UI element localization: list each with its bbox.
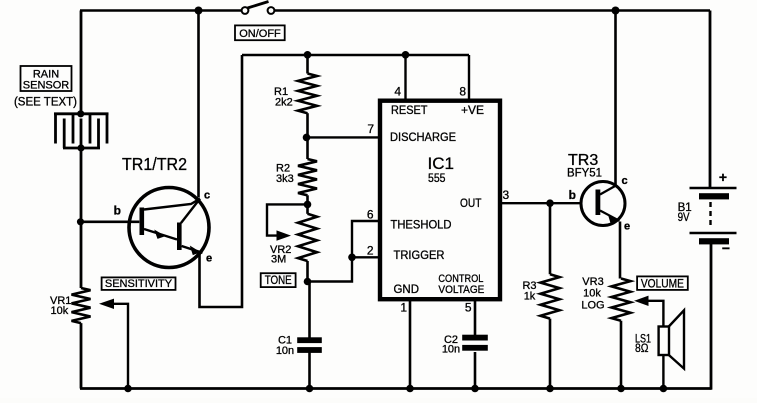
svg-text:3: 3 xyxy=(503,188,510,202)
svg-text:TR1/TR2: TR1/TR2 xyxy=(122,154,187,174)
svg-text:4: 4 xyxy=(394,85,401,99)
svg-text:1k: 1k xyxy=(524,291,536,303)
svg-text:SENSOR: SENSOR xyxy=(23,80,70,92)
svg-text:2k2: 2k2 xyxy=(275,97,293,109)
svg-text:555: 555 xyxy=(428,171,446,185)
svg-text:DISCHARGE: DISCHARGE xyxy=(390,130,456,144)
svg-text:e: e xyxy=(206,253,212,265)
svg-text:8: 8 xyxy=(459,85,466,99)
svg-text:1: 1 xyxy=(400,301,407,315)
svg-text:10k: 10k xyxy=(51,305,69,317)
svg-text:c: c xyxy=(204,190,210,202)
svg-text:c: c xyxy=(622,175,628,187)
svg-text:2: 2 xyxy=(367,244,374,258)
svg-text:b: b xyxy=(114,204,121,218)
svg-text:6: 6 xyxy=(367,208,374,222)
svg-text:LOG: LOG xyxy=(581,300,604,312)
svg-text:(SEE TEXT): (SEE TEXT) xyxy=(14,97,77,109)
svg-text:TRIGGER: TRIGGER xyxy=(394,248,445,262)
svg-text:3k3: 3k3 xyxy=(276,173,294,185)
svg-text:SENSITIVITY: SENSITIVITY xyxy=(105,278,173,290)
svg-text:b: b xyxy=(569,188,576,202)
svg-text:−: − xyxy=(722,240,730,256)
svg-text:+VE: +VE xyxy=(461,103,484,117)
svg-text:BFY51: BFY51 xyxy=(567,166,602,180)
svg-text:RESET: RESET xyxy=(391,103,428,117)
svg-text:VOLTAGE: VOLTAGE xyxy=(438,284,484,296)
svg-text:ON/OFF: ON/OFF xyxy=(239,28,281,40)
svg-text:7: 7 xyxy=(367,122,374,136)
svg-text:10n: 10n xyxy=(276,345,294,357)
svg-text:VOLUME: VOLUME xyxy=(641,278,684,290)
svg-text:THESHOLD: THESHOLD xyxy=(391,218,452,232)
svg-text:10k: 10k xyxy=(583,288,601,300)
svg-text:OUT: OUT xyxy=(460,196,482,210)
svg-text:10n: 10n xyxy=(442,344,460,356)
svg-text:e: e xyxy=(624,221,630,233)
svg-text:8Ω: 8Ω xyxy=(635,341,649,355)
svg-text:+: + xyxy=(719,169,727,185)
svg-text:5: 5 xyxy=(465,301,472,315)
svg-text:3M: 3M xyxy=(271,254,286,266)
svg-text:TONE: TONE xyxy=(265,275,292,287)
svg-text:VR3: VR3 xyxy=(582,276,603,288)
svg-text:GND: GND xyxy=(394,282,420,296)
svg-text:9V: 9V xyxy=(678,212,690,224)
